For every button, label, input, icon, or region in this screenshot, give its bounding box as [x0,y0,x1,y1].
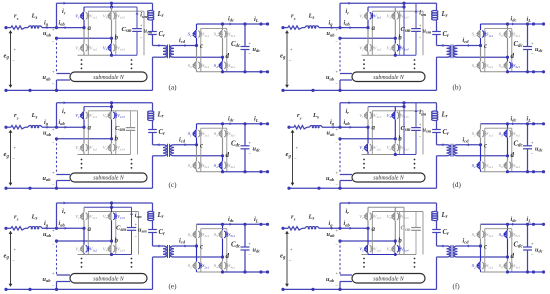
node d [506,154,509,157]
wire: top rail to bridge connection [111,203,113,207]
wire: secondary right leg lower (S4) [222,257,224,262]
node b [110,37,113,40]
wire: inductor to junction node [322,126,340,128]
wire: right leg lower (V4 branch) [394,241,396,245]
wire: secondary top lead to node c [458,245,481,247]
switch S1 [195,130,197,138]
wire: parallel-device gray frame right edge [137,111,139,155]
capacitor Cdc [244,124,246,146]
node d [221,154,224,157]
continuation dots left [81,159,83,161]
wire: secondary right leg lower (S4) [222,156,224,162]
wire: node b lower wire [340,138,395,140]
switch S3 [506,130,508,138]
switch S1 [479,231,481,239]
wire: parallel-device gray frame top [372,211,423,213]
wire: secondary parallel-device column right [226,229,228,272]
wire: secondary parallel-device column left [200,28,202,71]
capacitor Cr [152,121,154,130]
voltage source eg arrow [286,31,288,88]
switch S2 [195,262,197,270]
wire: stub to submodule N top [340,174,352,176]
svg-text:d: d [511,52,515,60]
current arrow iab [65,26,67,29]
wire: secondary left leg upper (S1) [480,224,482,230]
wire: bottom rail [283,89,437,91]
output terminals [532,122,535,125]
wire: top rail [57,102,153,104]
wire: top rail [57,202,153,204]
transformer core [450,144,452,157]
switch V1x4 [113,44,115,51]
wire: parallel-device gray frame top [372,110,423,112]
wire: bridge bottom bus [78,154,131,156]
wire: secondary parallel-device frame top [201,27,227,29]
inductor Ls [305,26,319,28]
wire: junction to node a [57,227,85,229]
capacitor Csm branch [415,3,417,28]
wire: source to resistor [6,27,11,29]
wire: secondary bottom rail [481,71,508,73]
resistor rs [11,227,25,230]
svg-text:−: − [294,157,297,162]
capacitor Cr [152,20,154,32]
switch S3 [506,30,508,38]
wire: secondary top rail [481,223,544,225]
voltage source eg arrow [286,231,288,286]
svg-text:c: c [200,141,203,149]
wire: inductor to junction node [319,227,340,229]
wire: source to resistor [6,227,11,229]
switch S1 [479,30,481,38]
capacitor Cr [436,121,438,130]
inductor Lr [436,3,438,10]
svg-text:+: + [14,246,17,251]
switch V1x3 [397,213,399,220]
wire: left leg upper (V1 branch) [367,7,369,12]
switch V3 [110,213,112,221]
submodule N box [70,274,147,284]
current arrow ir on top rail [349,101,351,104]
switch V2 [366,44,368,52]
switch V2 [366,144,368,152]
continuation dots left [363,59,365,61]
wire: secondary left leg upper (S1) [480,124,482,130]
wire: secondary left leg lower (S2) [480,46,482,62]
switch V1x1 [370,12,372,19]
wire: secondary left leg lower (S2) [196,46,198,62]
voltage source eg arrow [292,130,294,185]
wire: secondary parallel-device column right [511,28,513,71]
wire: resistor to inductor [25,227,28,229]
wire: stub to submodule N bottom [57,79,71,81]
switch V4 [394,144,396,152]
switch V1x3 [113,12,115,19]
wire: source to resistor [283,27,288,29]
wire: secondary top rail [481,23,544,25]
switch S1 [195,231,197,239]
switch S2x1 [482,162,484,169]
svg-text:submodule N: submodule N [373,176,405,182]
svg-text:c: c [484,42,487,50]
switch S4x1 [509,162,511,169]
switch S4 [221,162,223,170]
current arrow idc [230,122,232,125]
continuation dots left [81,59,83,61]
wire: secondary parallel-device column left [200,128,202,172]
wire: primary bottom lead to bottom rail [437,155,447,157]
wire: primary bottom lead to bottom rail [437,56,447,58]
wire: left leg upper (V1 branch) [367,207,369,212]
svg-text:s: s [293,217,296,222]
wire: secondary left leg upper (S1) [480,24,482,30]
svg-text:s: s [16,16,19,21]
switch V1x2 [370,44,372,51]
svg-text:b: b [115,34,119,42]
wire: secondary top lead to node c [458,45,481,47]
svg-text:−: − [12,258,15,263]
wire: secondary left leg upper (S1) [196,24,198,30]
wire: right leg lower (V4 branch) [394,38,396,44]
switch S3x1 [224,130,226,137]
switch V1x2 [370,245,372,252]
wire: junction up to top rail [339,203,341,228]
svg-text:(f): (f) [453,282,461,290]
wire: resistor to inductor [25,126,28,128]
switch S2 [479,162,481,170]
inductor Lr [436,203,438,212]
current arrow ig [331,26,333,29]
transformer primary winding [163,145,167,156]
wire: bridge bottom bus [362,154,396,156]
wire: junction up to top rail [339,3,341,27]
switch V1x1 [86,213,88,220]
wire: secondary parallel-device frame top [201,127,227,129]
wire: secondary left leg lower (S2) [196,246,198,262]
node d [221,56,224,59]
switch S2 [479,262,481,270]
wire: junction up to top rail [56,103,58,127]
switch S2x1 [198,62,200,69]
wire: parallel-device column left [87,11,89,55]
svg-text:submodule N: submodule N [93,176,125,182]
wire: bridge bottom bus [78,254,112,256]
submodule N box [352,274,425,284]
svg-text:d: d [511,252,515,260]
wire: resistor to inductor [302,27,305,29]
wire: secondary parallel-device frame top [485,27,512,29]
wire: node b lower wire [340,240,395,242]
current arrow idc [512,23,514,26]
node b [394,239,397,242]
current arrow ig [47,227,49,230]
svg-text:a: a [372,124,376,132]
wire: source to resistor [6,126,11,128]
current arrow ir on top rail [64,2,66,5]
wire: secondary right leg lower (S4) [507,57,509,61]
wire: parallel-device column left [371,11,373,55]
continuation dots left [363,159,365,161]
wire: right leg upper (V3 branch) [394,7,396,12]
wire: secondary parallel-device column left [484,229,486,272]
current arrow iab [350,126,352,129]
output terminals [259,122,262,125]
switch V1x4 [113,144,115,151]
wire: parallel-device column right [115,11,117,55]
wire: bridge top rail [368,6,404,8]
transformer core [450,45,452,59]
capacitor Cdc [244,224,246,247]
continuation dots right [414,258,416,260]
node: AC source terminal (panel e) [4,227,7,230]
wire: secondary parallel-device frame top [485,228,512,230]
wire: dashed series-submodule link [56,38,58,73]
svg-text:c: c [484,141,487,149]
switch V1 [366,112,368,120]
inductor Ls [28,125,42,127]
current arrow ig [47,26,49,29]
wire: secondary right leg lower (S4) [507,156,509,162]
transformer secondary winding [170,246,174,257]
wire: top rail [340,2,437,4]
svg-text:(b): (b) [453,83,462,91]
switch V1x3 [113,112,115,119]
wire: inductor to junction node [42,126,57,128]
wire: parallel-device column right [399,212,401,255]
switch V1 [82,213,84,221]
switch V1x3 [397,112,399,119]
switch S4 [506,162,508,170]
switch S2 [195,162,197,170]
switch S2x1 [198,162,200,169]
wire: dashed series-submodule link [339,241,341,275]
output terminals [532,223,535,226]
wire: secondary right leg upper (S3) [222,24,224,30]
switch V1x4 [397,44,399,51]
resistor rs [294,126,307,129]
transformer core [167,245,169,258]
wire: secondary top lead to node c [458,144,481,146]
wire: parallel-device column right [399,111,401,155]
switch S1x1 [198,231,200,238]
continuation dots right [414,59,416,61]
svg-text:d: d [226,151,230,159]
continuation dots right [131,258,133,260]
wire: parallel-device column left [87,111,89,155]
switch V4 [394,44,396,52]
wire: secondary bottom lead to node d [458,256,508,258]
node: AC source terminal (panel d) [287,126,290,129]
wire: junction up to top rail [56,203,58,228]
switch V1 [366,12,368,20]
wire: left leg upper (V1 branch) [83,7,85,12]
wire: secondary right leg upper (S3) [222,124,224,130]
submodule N box [70,173,147,182]
wire: Cr to transformer primary [152,233,154,247]
current arrow ig [333,126,335,129]
svg-text:b: b [398,34,402,42]
switch V1x4 [397,144,399,151]
wire: secondary parallel-device column right [226,28,228,71]
resistor rs [11,26,25,29]
switch S3x1 [224,31,226,38]
switch S4 [221,262,223,270]
switch V1 [82,112,84,120]
current arrow ir on top rail [349,202,351,205]
wire: parallel-device column right [399,11,401,55]
wire: node b lower wire [340,37,395,39]
wire: junction to node a [57,126,85,128]
wire: top rail to bridge connection [111,3,113,7]
transformer primary winding [447,46,451,58]
continuation dots right [131,59,133,61]
svg-text:s: s [16,115,19,120]
wire: primary bottom lead to bottom rail [153,256,164,258]
transformer secondary winding [170,46,174,58]
switch S2 [479,62,481,70]
voltage source eg arrow [10,31,12,88]
svg-text:submodule N: submodule N [373,75,405,81]
switch S3x1 [509,130,511,137]
wire: parallel-device gray frame right edge [138,212,140,255]
inductor Ls [28,26,42,28]
wire: submodule N to bottom rail [56,282,58,290]
wire: right leg lower (V4 branch) [111,241,113,245]
switch V1x1 [86,12,88,19]
wire: submodule N to bottom rail [56,181,58,189]
wire: parallel-device gray frame right edge [143,11,145,55]
wire: secondary left leg lower (S2) [480,246,482,262]
wire: secondary bottom rail [481,171,508,173]
switch S2x1 [482,262,484,269]
switch S3 [221,130,223,138]
current arrow ism [136,12,139,14]
wire: bridge top rail [84,6,137,8]
svg-text:+: + [296,145,299,150]
node b [394,137,397,140]
svg-text:b: b [115,237,119,245]
voltage source eg arrow [10,231,12,286]
wire: top rail [340,202,437,204]
svg-text:a: a [88,124,92,132]
current arrow ism [415,10,418,12]
wire: secondary top rail [197,23,268,25]
wire: primary bottom lead to bottom rail [153,155,164,157]
wire: parallel-device gray frame top [88,10,144,12]
svg-text:−: − [12,58,15,63]
current arrow idc [512,223,514,226]
svg-text:s: s [16,217,19,222]
switch S1x1 [482,130,484,137]
wire: secondary right leg upper (S3) [507,24,509,30]
node c [195,143,198,146]
node: AC source terminal (panel b) [281,26,284,29]
wire: right leg lower (V4 branch) [111,139,113,144]
svg-text:+: + [14,47,17,52]
switch V1x3 [397,12,399,19]
wire: bridge bottom bus [362,254,369,256]
node c [479,44,482,47]
node d [221,255,224,258]
transformer secondary winding [170,145,174,156]
node: AC source terminal (panel c) [4,126,7,129]
wire: stub to submodule N top [57,274,71,276]
wire: secondary top lead to node c [174,144,197,146]
capacitor Cdc [527,224,529,247]
node a [82,26,85,29]
current arrow ir on top rail [64,101,66,104]
wire: Cr to transformer primary [152,133,154,145]
switch S3 [221,30,223,38]
switch S2x1 [198,262,200,269]
switch S4x1 [509,262,511,269]
current arrow ism [415,110,418,112]
wire: left leg lower (V2 branch) [83,28,85,44]
switch V1 [82,12,84,20]
current arrow ig [331,227,333,230]
node a [366,126,369,129]
svg-text:−: − [289,58,292,63]
svg-text:submodule N: submodule N [93,277,125,283]
switch S3x1 [509,31,511,38]
current arrow idc [230,223,232,226]
wire: inductor to junction node [42,227,57,229]
wire: bridge top rail [84,206,132,208]
wire: secondary parallel-device column left [484,28,486,71]
switch V3 [110,12,112,20]
wire: junction to node a [340,227,368,229]
wire: left leg lower (V2 branch) [83,228,85,245]
wire: inductor to junction node [42,27,57,29]
node: AC source terminal (panel a) [4,26,7,29]
continuation dots right [414,159,416,161]
transformer primary winding [447,145,451,156]
wire: submodule N to bottom rail [56,80,58,90]
capacitor Csm branch [136,7,138,29]
wire: stub to submodule N top [340,274,352,276]
current arrow iab [65,227,67,230]
inductor Lr [152,203,154,212]
transformer secondary winding [454,46,458,58]
wire: bridge top rail [368,106,404,108]
svg-text:(d): (d) [453,181,462,189]
node: junction of source wire and chain [338,126,341,129]
wire: bridge bottom bus [78,54,112,56]
switch S3 [506,231,508,239]
wire: secondary parallel-device column right [226,128,228,172]
node: junction of source wire and chain [55,26,58,29]
svg-text:+: + [290,47,293,52]
wire: secondary parallel-device column right [511,229,513,272]
wire: junction to node a [340,27,368,29]
svg-text:−: − [12,157,15,162]
transformer secondary winding [454,145,458,156]
switch V4 [110,144,112,152]
wire: left leg lower (V2 branch) [367,28,369,44]
wire: bottom rail [289,187,437,189]
svg-text:d: d [511,151,515,159]
wire: right leg lower (V4 branch) [111,38,113,44]
switch V2 [366,245,368,253]
wire: secondary parallel-device column left [200,229,202,272]
wire: stub to submodule N bottom [340,281,352,283]
wire: left leg upper (V1 branch) [83,107,85,112]
transformer core [450,245,452,258]
current arrow iab [350,26,352,29]
wire: stub to submodule N bottom [340,79,352,81]
wire: right leg upper (V3 branch) [111,207,113,212]
switch V4 [394,245,396,253]
